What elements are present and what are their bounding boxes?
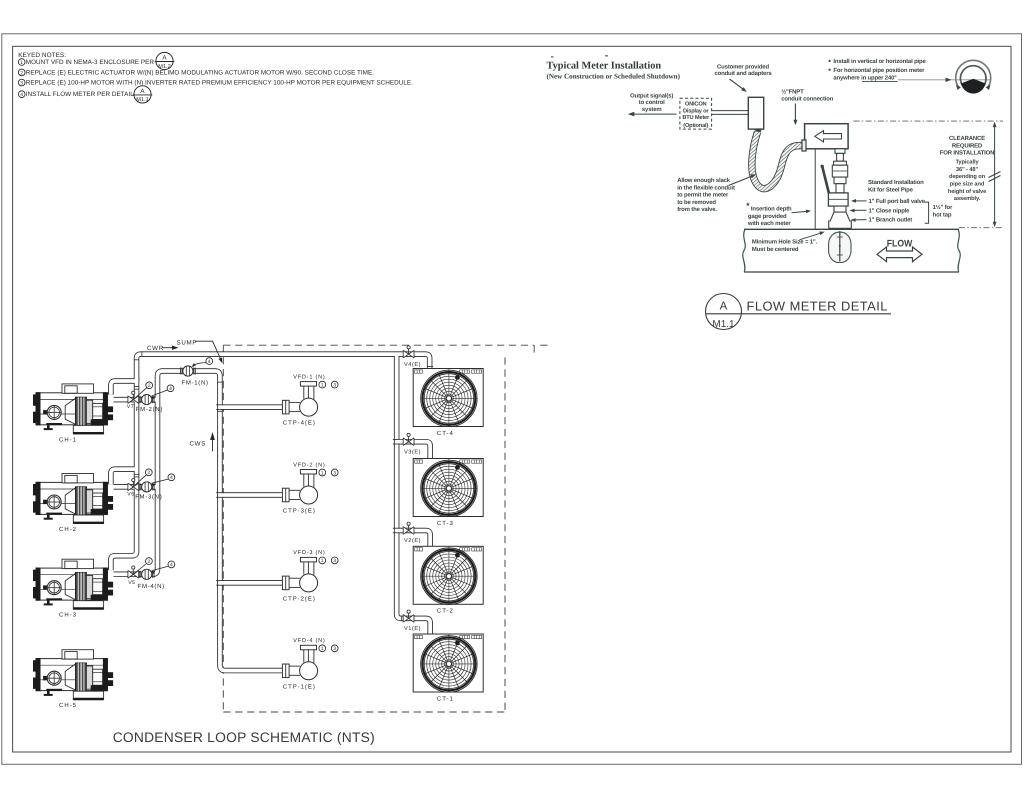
svg-text:Typically: Typically: [955, 159, 979, 166]
svg-text:3: 3: [333, 558, 336, 564]
svg-text:V2(E): V2(E): [404, 537, 421, 544]
svg-text:CH-1: CH-1: [59, 436, 77, 443]
svg-text:with each meter: with each meter: [747, 220, 791, 227]
svg-text:BTU Meter: BTU Meter: [682, 115, 710, 121]
svg-text:hot tap: hot tap: [933, 211, 952, 218]
svg-text:conduit connection: conduit connection: [781, 95, 834, 102]
svg-text:1" Full port ball valve: 1" Full port ball valve: [869, 198, 926, 205]
svg-text:1: 1: [321, 646, 324, 652]
svg-text:Minimum Hole Size = 1".: Minimum Hole Size = 1".: [752, 239, 818, 246]
svg-text:FLOW: FLOW: [887, 239, 913, 250]
svg-text:Kit for Steel Pipe: Kit for Steel Pipe: [868, 186, 914, 193]
svg-text:(New Construction or Scheduled: (New Construction or Scheduled Shutdown): [547, 72, 681, 80]
svg-text:A: A: [720, 301, 728, 313]
svg-text:3: 3: [333, 646, 336, 652]
svg-text:1" Close nipple: 1" Close nipple: [869, 207, 911, 214]
svg-text:CTP-2(E): CTP-2(E): [283, 595, 316, 602]
svg-text:SUMP: SUMP: [177, 340, 198, 347]
svg-text:3: 3: [333, 382, 336, 388]
svg-text:CH-2: CH-2: [59, 526, 77, 533]
svg-text:M1.2: M1.2: [158, 64, 170, 70]
svg-text:V1(E): V1(E): [404, 625, 421, 632]
svg-text:VFD-1 (N): VFD-1 (N): [293, 373, 325, 380]
svg-text:V3(E): V3(E): [404, 448, 421, 455]
svg-text:conduit and adapters: conduit and adapters: [714, 70, 772, 77]
svg-text:system: system: [642, 107, 662, 113]
svg-text:depending on: depending on: [949, 173, 986, 180]
svg-text:to be removed: to be removed: [677, 199, 716, 206]
svg-text:CWS: CWS: [190, 440, 207, 447]
svg-text:in the flexible conduit: in the flexible conduit: [677, 184, 735, 191]
svg-text:1: 1: [321, 470, 324, 476]
svg-text:FM-3(N): FM-3(N): [135, 493, 162, 500]
svg-text:V4(E): V4(E): [404, 361, 421, 368]
svg-text:VFD-3 (N): VFD-3 (N): [293, 549, 325, 556]
svg-text:to permit the meter: to permit the meter: [677, 192, 729, 199]
svg-text:1: 1: [321, 382, 324, 388]
svg-text:2: 2: [20, 70, 23, 76]
svg-text:4: 4: [170, 562, 173, 568]
svg-text:1: 1: [321, 558, 324, 564]
svg-text:REQUIRED: REQUIRED: [952, 142, 983, 149]
svg-text:gage provided: gage provided: [748, 213, 787, 220]
svg-text:ONICON: ONICON: [685, 102, 707, 108]
svg-text:V7: V7: [127, 404, 134, 410]
svg-text:CH-3: CH-3: [59, 612, 77, 619]
svg-text:2: 2: [148, 383, 151, 389]
svg-text:V5: V5: [128, 580, 135, 586]
svg-text:1: 1: [20, 60, 23, 66]
svg-text:height of valve: height of valve: [948, 188, 986, 195]
svg-text:4: 4: [170, 475, 173, 481]
svg-text:V6: V6: [127, 491, 134, 497]
svg-text:3: 3: [20, 80, 23, 86]
svg-text:to control: to control: [639, 99, 665, 106]
svg-text:M1.1: M1.1: [136, 97, 148, 103]
svg-text:FM-4(N): FM-4(N): [138, 583, 165, 590]
svg-text:CT-2: CT-2: [437, 608, 454, 615]
svg-text:FOR INSTALLATION: FOR INSTALLATION: [940, 150, 994, 157]
svg-text:CT-3: CT-3: [437, 520, 454, 527]
svg-text:Customer provided: Customer provided: [717, 63, 769, 70]
svg-text:36" - 48": 36" - 48": [956, 167, 979, 173]
svg-text:1½" for: 1½" for: [933, 204, 953, 211]
svg-text:CTP-1(E): CTP-1(E): [283, 683, 316, 690]
svg-text:Allow enough slack: Allow enough slack: [677, 177, 731, 184]
svg-text:2: 2: [147, 470, 150, 476]
svg-text:M1.1: M1.1: [712, 319, 735, 330]
svg-text:FLOW METER DETAIL: FLOW METER DETAIL: [747, 298, 888, 313]
svg-text:CLEARANCE: CLEARANCE: [949, 135, 985, 142]
svg-text:For horizontal pipe position m: For horizontal pipe position meter: [833, 67, 925, 74]
svg-text:4: 4: [20, 92, 23, 98]
svg-text:Typical Meter Installation: Typical Meter Installation: [547, 61, 662, 72]
svg-text:Install in vertical or horizon: Install in vertical or horizontal pipe: [833, 58, 926, 65]
svg-text:anywhere in upper 240°: anywhere in upper 240°: [833, 75, 897, 82]
svg-text:VFD-4 (N): VFD-4 (N): [293, 637, 325, 644]
svg-text:½"FNPT: ½"FNPT: [781, 89, 804, 96]
svg-text:KEYED NOTES:: KEYED NOTES:: [18, 52, 66, 59]
svg-text:CT-1: CT-1: [437, 695, 454, 702]
svg-text:CT-4: CT-4: [437, 430, 454, 437]
svg-text:2: 2: [148, 559, 151, 565]
svg-text:CONDENSER LOOP SCHEMATIC (NTS): CONDENSER LOOP SCHEMATIC (NTS): [113, 730, 375, 745]
svg-text:4: 4: [169, 386, 172, 392]
svg-text:Standard Installation: Standard Installation: [868, 179, 924, 186]
svg-text:Must be centered: Must be centered: [752, 246, 799, 253]
svg-text:assembly.: assembly.: [954, 195, 981, 202]
svg-text:CH-5: CH-5: [59, 702, 77, 709]
svg-text:REPLACE (E) ELECTRIC ACTUATOR: REPLACE (E) ELECTRIC ACTUATOR W/(N) BELI…: [26, 69, 374, 76]
svg-text:MOUNT VFD IN NEMA-3 ENCLOSURE: MOUNT VFD IN NEMA-3 ENCLOSURE PER: [26, 59, 155, 66]
svg-text:from the valve.: from the valve.: [677, 206, 717, 213]
svg-text:(Optional): (Optional): [683, 122, 708, 129]
svg-text:CTP-4(E): CTP-4(E): [283, 420, 316, 427]
svg-text:FM-1(N): FM-1(N): [182, 379, 209, 386]
svg-text:3: 3: [333, 470, 336, 476]
svg-text:CTP-3(E): CTP-3(E): [283, 508, 316, 515]
svg-text:Display or: Display or: [683, 107, 709, 114]
svg-text:INSTALL FLOW METER PER DETAIL: INSTALL FLOW METER PER DETAIL: [26, 91, 134, 98]
svg-text:1" Branch outlet: 1" Branch outlet: [869, 217, 913, 224]
svg-text:pipe size and: pipe size and: [950, 181, 985, 188]
svg-text:VFD-2 (N): VFD-2 (N): [293, 461, 325, 468]
svg-text:FM-2(N): FM-2(N): [136, 406, 163, 413]
svg-text:Output signal(s): Output signal(s): [630, 92, 673, 99]
svg-text:4: 4: [208, 359, 211, 365]
svg-text:CWR: CWR: [147, 345, 164, 352]
svg-text:Insertion depth: Insertion depth: [751, 206, 792, 213]
svg-text:REPLACE (E) 100-HP MOTOR WITH: REPLACE (E) 100-HP MOTOR WITH (N) INVERT…: [26, 80, 413, 87]
